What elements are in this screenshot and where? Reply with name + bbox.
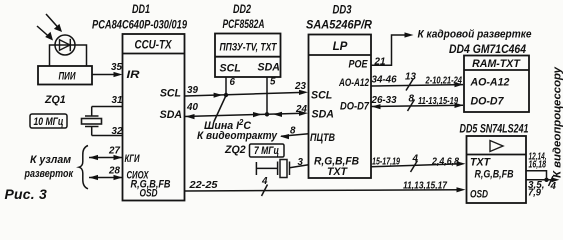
svg-text:31: 31 bbox=[112, 95, 123, 106]
svg-text:Рис. 3: Рис. 3 bbox=[5, 186, 47, 202]
IR rays arrows bbox=[37, 14, 62, 41]
svg-text:разверток: разверток bbox=[24, 168, 74, 180]
svg-text:7,9: 7,9 bbox=[528, 188, 542, 199]
IC DD1 CCU-TX block bbox=[123, 34, 185, 201]
value label 7 MHz bbox=[250, 144, 285, 157]
wire SCL bus pin39 to pin23 bbox=[185, 90, 309, 98]
wire data bus DO-D7 DD3 to DD4 bbox=[371, 100, 464, 112]
svg-text:DO-D7: DO-D7 bbox=[340, 101, 370, 113]
svg-text:ZQ1: ZQ1 bbox=[44, 94, 66, 106]
svg-text:8: 8 bbox=[290, 126, 296, 137]
brace to sweep units label bbox=[24, 146, 88, 189]
svg-text:11,13,15,17: 11,13,15,17 bbox=[403, 181, 447, 192]
wire DD2 pin 5 to SDA bus bbox=[266, 77, 268, 114]
wire PII output to DD1 pin 35 IR bbox=[92, 72, 123, 77]
svg-text:26-33: 26-33 bbox=[371, 95, 398, 106]
svg-text:2,4,6,8: 2,4,6,8 bbox=[431, 157, 459, 168]
svg-text:CCU-TX: CCU-TX bbox=[135, 39, 173, 52]
svg-text:ZQ2: ZQ2 bbox=[224, 144, 246, 156]
IC DD4 RAM-TXT block bbox=[464, 56, 529, 113]
svg-text:28: 28 bbox=[108, 166, 120, 177]
svg-text:POE: POE bbox=[349, 59, 369, 71]
junction SDA / pin5 bbox=[265, 112, 269, 116]
svg-text:DD4 GM71C464: DD4 GM71C464 bbox=[449, 43, 526, 56]
svg-text:24: 24 bbox=[295, 104, 307, 115]
svg-text:DO-D7: DO-D7 bbox=[471, 96, 505, 108]
wire KGI DD1 pin 27 bbox=[89, 155, 123, 160]
svg-text:PCF8582A: PCF8582A bbox=[223, 18, 265, 31]
wire ZQ1 to DD1 pin 31 bbox=[92, 106, 123, 108]
svg-text:DD2: DD2 bbox=[233, 3, 251, 16]
svg-text:К видеотракту: К видеотракту bbox=[197, 130, 278, 142]
wire PCTV DD3 pin 8 bbox=[280, 134, 309, 139]
DD3 pin name R,G,B,FB TXT bbox=[314, 156, 359, 179]
IC DD5 buffer block bbox=[467, 136, 527, 203]
wire RGB TXT DD3 to DD5 bbox=[371, 161, 466, 173]
svg-text:SAA5246P/R: SAA5246P/R bbox=[306, 19, 373, 32]
svg-text:TXT: TXT bbox=[327, 166, 349, 178]
svg-text:27: 27 bbox=[108, 146, 120, 157]
IC DD1 designator label bbox=[92, 3, 187, 32]
receiver module PII bbox=[38, 66, 92, 85]
svg-text:8: 8 bbox=[409, 94, 415, 105]
svg-text:11-13,15-19: 11-13,15-19 bbox=[418, 96, 458, 107]
svg-text:OSD: OSD bbox=[140, 188, 158, 200]
svg-text:6: 6 bbox=[230, 77, 236, 88]
svg-text:10 МГц: 10 МГц bbox=[34, 116, 64, 128]
svg-text:К кадровой развертке: К кадровой развертке bbox=[418, 29, 532, 41]
svg-text:RAM-TXT: RAM-TXT bbox=[472, 58, 521, 70]
junction DD5 outputs bbox=[544, 178, 548, 182]
svg-text:23: 23 bbox=[294, 81, 306, 92]
svg-text:2-10,21-24: 2-10,21-24 bbox=[425, 75, 463, 86]
DD1 pin name R,G,B,FB OSD bbox=[131, 179, 171, 200]
svg-text:16,18: 16,18 bbox=[529, 160, 547, 171]
svg-text:4: 4 bbox=[412, 154, 419, 165]
svg-text:3: 3 bbox=[298, 157, 304, 168]
svg-text:LP: LP bbox=[333, 40, 348, 53]
photodiode mount wires bbox=[50, 45, 87, 67]
svg-text:5: 5 bbox=[270, 77, 276, 88]
svg-text:39: 39 bbox=[187, 85, 198, 96]
junction SCL / pin6 bbox=[224, 93, 228, 97]
svg-text:R,G,B,FB: R,G,B,FB bbox=[475, 169, 514, 181]
svg-text:К видеопроцессору: К видеопроцессору bbox=[552, 66, 563, 178]
wire DD5 outputs 12,14,16,18 bbox=[526, 171, 547, 180]
wire OSD DD1 pins 22-25 to DD5 bbox=[185, 185, 466, 197]
wire DD5 outputs 3,5,7,9 bbox=[526, 179, 547, 181]
wire POE pin 21 to frame sweep bbox=[371, 32, 414, 65]
wire to video processor bbox=[547, 176, 560, 186]
svg-text:13: 13 bbox=[405, 72, 416, 83]
svg-text:OSD: OSD bbox=[470, 189, 488, 201]
svg-text:TXT: TXT bbox=[470, 157, 492, 169]
svg-text:SCL: SCL bbox=[311, 90, 332, 102]
svg-text:SDA: SDA bbox=[160, 109, 182, 121]
svg-text:40: 40 bbox=[186, 102, 198, 113]
IC DD2 PPZU-TV,TXT block bbox=[215, 34, 281, 78]
IC DD3 SAA5246 block bbox=[309, 35, 372, 179]
svg-text:КГИ: КГИ bbox=[125, 153, 140, 165]
svg-text:AO-A12: AO-A12 bbox=[338, 77, 369, 89]
crystal ZQ2 bbox=[224, 144, 309, 178]
value label 10 MHz bbox=[30, 114, 67, 128]
svg-text:DD3: DD3 bbox=[333, 4, 352, 17]
svg-text:4: 4 bbox=[261, 176, 268, 187]
svg-text:ПИИ: ПИИ bbox=[59, 71, 76, 83]
crystal ZQ1 bbox=[44, 94, 102, 136]
label I2C bus with leader line bbox=[204, 97, 251, 133]
svg-text:DD5 SN74LS241: DD5 SN74LS241 bbox=[460, 123, 529, 136]
svg-text:15-17,19: 15-17,19 bbox=[372, 157, 400, 168]
svg-text:SDA: SDA bbox=[258, 62, 280, 74]
wire address bus AO-A12 DD3 to DD4 bbox=[371, 79, 464, 91]
svg-text:21: 21 bbox=[374, 57, 386, 68]
wire SIOH DD1 pin 28 bbox=[89, 175, 123, 180]
wire SDA bus pin40 to pin24 bbox=[185, 111, 309, 120]
svg-text:SCL: SCL bbox=[220, 63, 241, 75]
svg-text:32: 32 bbox=[112, 126, 123, 137]
IC DD3 designator label bbox=[306, 4, 373, 32]
svg-text:ППЗУ-TV, TXT: ППЗУ-TV, TXT bbox=[220, 42, 278, 54]
svg-text:SCL: SCL bbox=[160, 88, 181, 100]
svg-text:К узлам: К узлам bbox=[30, 154, 71, 166]
svg-text:SDA: SDA bbox=[312, 109, 334, 121]
svg-text:4: 4 bbox=[550, 181, 557, 192]
svg-text:34-46: 34-46 bbox=[372, 75, 398, 86]
svg-text:22-25: 22-25 bbox=[188, 180, 218, 191]
svg-text:IR: IR bbox=[127, 69, 140, 81]
svg-text:DD1: DD1 bbox=[132, 3, 150, 16]
svg-text:ПЦТВ: ПЦТВ bbox=[310, 132, 335, 144]
svg-text:PCA84C640P-030/019: PCA84C640P-030/019 bbox=[92, 19, 187, 32]
wire DD2 pin 6 to SCL bus bbox=[225, 77, 227, 95]
svg-text:35: 35 bbox=[111, 62, 122, 73]
IC DD2 designator label bbox=[223, 3, 265, 31]
wire ZQ1 to DD1 pin 32 bbox=[92, 135, 123, 137]
svg-text:AO-A12: AO-A12 bbox=[470, 77, 510, 89]
svg-text:7 МГц: 7 МГц bbox=[254, 145, 279, 157]
photodiode VD1 IR sensor bbox=[55, 35, 75, 55]
